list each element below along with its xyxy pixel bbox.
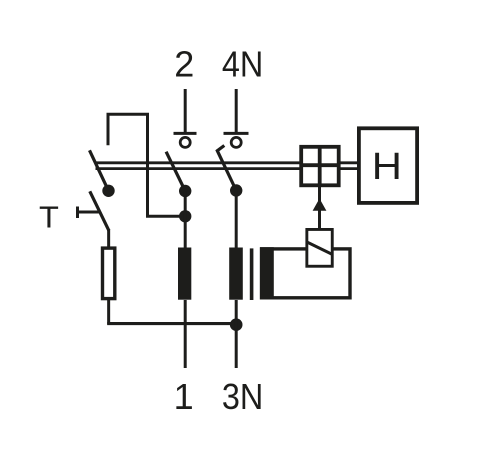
wire bus line lower (left segment)	[96, 167, 301, 170]
svg-text:H: H	[372, 146, 402, 188]
svg-text:T: T	[39, 199, 59, 234]
mechanical linkage bracket	[108, 114, 185, 216]
CT core bar	[250, 248, 254, 300]
terminal 2 (crossbar and circle)	[174, 133, 197, 147]
indicator box H	[359, 128, 417, 203]
wire test circuit horizontal	[107, 322, 236, 325]
switch pole 1 blade	[90, 150, 109, 191]
wire trip link vertical	[318, 187, 321, 230]
test switch blade	[90, 191, 109, 230]
trip direction arrow	[313, 199, 327, 211]
svg-text:1: 1	[174, 376, 194, 417]
switch pole 2 blade	[166, 152, 185, 191]
resistor R test	[103, 248, 115, 299]
trip relay body box	[262, 249, 350, 298]
terminal 4N (crossbar and circle)	[224, 133, 249, 147]
node dot test junction on N wire	[230, 318, 243, 331]
node dot linkage junction	[179, 210, 191, 222]
node dot pole 1	[102, 185, 114, 197]
wire pole 2 down to CT winding	[184, 191, 187, 249]
wire resistor down	[107, 299, 110, 325]
wire pole N down to CT winding	[235, 191, 238, 250]
wire bus line upper (right segment to H box)	[340, 161, 358, 164]
CT secondary winding (filled)	[260, 247, 274, 299]
svg-text:4N: 4N	[222, 45, 263, 85]
svg-text:2: 2	[174, 44, 194, 85]
wire terminal 2 lead	[184, 89, 187, 132]
wire bus line lower (right segment to H box)	[340, 167, 358, 170]
wire bus line upper (left segment)	[96, 161, 301, 164]
wire terminal 4N lead	[235, 89, 238, 132]
wire pole 2 down to terminal 1	[184, 300, 187, 368]
CT primary winding pole N	[229, 248, 243, 300]
wire test blade to resistor	[107, 229, 110, 249]
wire pole N down to terminal 3N	[235, 300, 238, 368]
test button actuator bar	[76, 207, 79, 219]
svg-text:3N: 3N	[222, 377, 263, 417]
node dot pole 2	[179, 185, 191, 197]
trip mechanism cross box	[300, 146, 341, 187]
switch pole N blade (with bent tip)	[217, 146, 236, 191]
release element box with diagonal	[307, 229, 333, 266]
CT primary winding pole 2	[178, 248, 191, 300]
node dot pole N	[230, 184, 242, 196]
test button actuator link	[78, 211, 100, 214]
